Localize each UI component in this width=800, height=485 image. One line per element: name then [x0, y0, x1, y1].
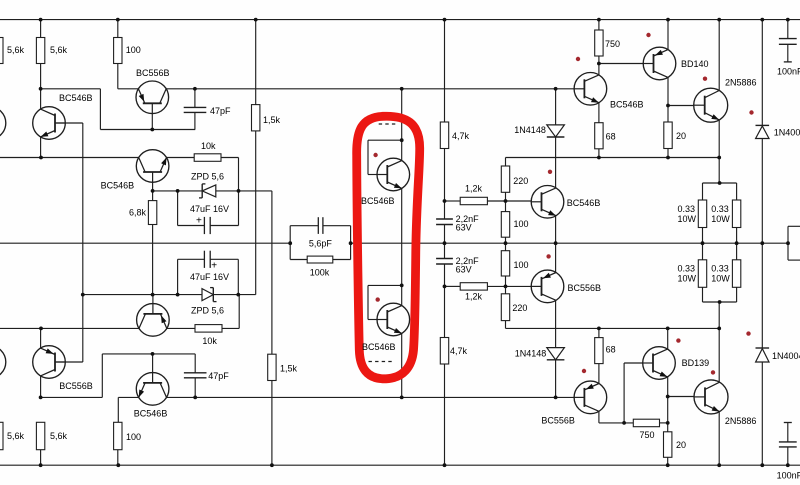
svg-text:63V: 63V: [456, 222, 472, 232]
svg-text:47uF 16V: 47uF 16V: [190, 204, 229, 214]
svg-text:100: 100: [126, 432, 141, 442]
svg-text:ZPD 5,6: ZPD 5,6: [191, 306, 224, 316]
svg-text:10W: 10W: [711, 214, 730, 224]
svg-text:BC556B: BC556B: [568, 283, 602, 293]
svg-text:BD140: BD140: [681, 59, 709, 69]
svg-text:100: 100: [514, 219, 529, 229]
svg-text:47pF: 47pF: [210, 106, 231, 116]
svg-text:0.33: 0.33: [678, 204, 696, 214]
svg-text:2N5886: 2N5886: [725, 416, 757, 426]
svg-text:BC556B: BC556B: [59, 381, 93, 391]
svg-text:1,2k: 1,2k: [465, 292, 483, 302]
svg-text:68: 68: [606, 345, 616, 355]
svg-text:BC556B: BC556B: [136, 68, 170, 78]
svg-text:5,6k: 5,6k: [50, 431, 68, 441]
svg-text:1N4004: 1N4004: [774, 128, 800, 138]
svg-text:BC546B: BC546B: [101, 181, 135, 191]
svg-text:1,2k: 1,2k: [465, 184, 483, 194]
svg-text:750: 750: [640, 430, 655, 440]
svg-text:5,6k: 5,6k: [7, 431, 25, 441]
svg-text:5,6pF: 5,6pF: [309, 239, 333, 249]
svg-text:6,8k: 6,8k: [129, 208, 147, 218]
svg-text:220: 220: [512, 303, 527, 313]
svg-text:47pF: 47pF: [208, 371, 229, 381]
svg-text:5,6k: 5,6k: [50, 45, 68, 55]
svg-text:10k: 10k: [201, 141, 216, 151]
svg-text:BC546B: BC546B: [134, 409, 168, 419]
svg-text:100: 100: [514, 260, 529, 270]
svg-text:ZPD 5,6: ZPD 5,6: [191, 172, 224, 182]
svg-text:BC546B: BC546B: [362, 342, 396, 352]
svg-text:100nF: 100nF: [777, 471, 800, 481]
svg-text:5,6k: 5,6k: [7, 45, 25, 55]
svg-text:1,5k: 1,5k: [280, 364, 298, 374]
svg-text:100: 100: [126, 45, 141, 55]
svg-text:BC546B: BC546B: [610, 100, 644, 110]
svg-text:100nF: 100nF: [777, 67, 800, 77]
svg-text:47uF 16V: 47uF 16V: [190, 272, 229, 282]
svg-text:+: +: [196, 216, 202, 227]
svg-text:4,7k: 4,7k: [450, 346, 468, 356]
svg-text:10k: 10k: [202, 336, 217, 346]
svg-text:+: +: [211, 261, 217, 272]
svg-text:BD139: BD139: [682, 358, 710, 368]
svg-text:BC556B: BC556B: [541, 416, 575, 426]
svg-text:4,7k: 4,7k: [452, 131, 470, 141]
svg-text:2N5886: 2N5886: [725, 78, 757, 88]
svg-text:20: 20: [676, 131, 686, 141]
svg-text:0.33: 0.33: [711, 264, 729, 274]
svg-text:1,5k: 1,5k: [263, 115, 281, 125]
svg-text:0.33: 0.33: [711, 204, 729, 214]
svg-text:68: 68: [606, 131, 616, 141]
svg-text:10W: 10W: [711, 274, 730, 284]
svg-text:10W: 10W: [678, 214, 697, 224]
svg-text:BC546B: BC546B: [567, 198, 601, 208]
svg-text:20: 20: [676, 440, 686, 450]
svg-text:BC546B: BC546B: [361, 196, 395, 206]
svg-text:63V: 63V: [456, 265, 472, 275]
svg-text:0.33: 0.33: [678, 264, 696, 274]
svg-text:1N4148: 1N4148: [514, 125, 546, 135]
svg-text:BC546B: BC546B: [59, 93, 93, 103]
svg-text:1N4004: 1N4004: [772, 351, 800, 361]
svg-text:100k: 100k: [310, 268, 330, 278]
svg-text:1N4148: 1N4148: [515, 348, 547, 358]
svg-text:750: 750: [605, 39, 620, 49]
svg-text:220: 220: [513, 176, 528, 186]
svg-text:10W: 10W: [678, 274, 697, 284]
